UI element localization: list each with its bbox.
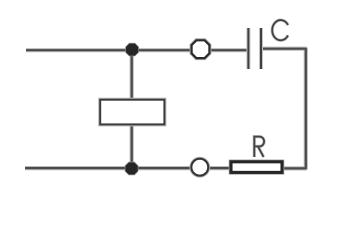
wire right loop (capacitor to resistor via right rail) (262, 49, 306, 169)
capacitor right plate (259, 28, 263, 69)
label C (272, 20, 288, 40)
shunt component box (100, 100, 164, 125)
wire top rail (26, 48, 248, 52)
wire bottom rail (25, 166, 231, 170)
capacitor left plate (246, 28, 250, 69)
junction node bottom (126, 163, 138, 175)
junction node top (126, 44, 138, 56)
terminal octagon top (192, 40, 210, 58)
resistor body (231, 162, 282, 173)
wire shunt branch (130, 50, 134, 168)
label R (254, 137, 264, 157)
terminal circle bottom (191, 159, 208, 176)
